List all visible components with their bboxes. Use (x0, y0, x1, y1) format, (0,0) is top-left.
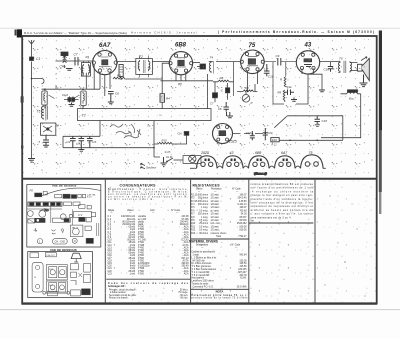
capacitor C15 (87, 136, 97, 147)
wire R1 coil down (83, 73, 86, 90)
long rect 25Z5 (53, 218, 71, 222)
scan bottom edge line (0, 309, 400, 311)
tube socket row (190, 151, 326, 176)
right rects (79, 217, 92, 222)
heater bus caps (63, 136, 154, 147)
tube circle 4 (69, 214, 72, 217)
electrolytic cap (210, 82, 218, 106)
ground 25Z5 top (227, 112, 234, 118)
ground pentode (319, 90, 325, 92)
wire left col to bus (63, 121, 100, 148)
bottom row parts (43, 289, 91, 296)
cv rects (64, 202, 92, 209)
capacitor C20 (263, 128, 273, 140)
wire main grid bus left (56, 56, 94, 61)
pencil scribble (110, 124, 141, 138)
socket 6A7 (275, 151, 296, 169)
table resistances (189, 183, 249, 299)
ground Ca (43, 145, 49, 147)
ground antenna line (28, 159, 35, 163)
band switch box (41, 123, 60, 135)
scan top edge line (0, 27, 400, 29)
wire 75 to C9 (265, 62, 277, 104)
antenna (29, 40, 35, 49)
wire arrows trimmer (49, 85, 80, 99)
IF transformer T2 (136, 55, 153, 77)
capacitor C15 out (324, 67, 334, 72)
top rects (30, 253, 56, 258)
resistor 100 box (271, 138, 279, 147)
IF can bar (28, 202, 62, 206)
socket 43 (223, 151, 244, 169)
chassis bottom view (28, 248, 93, 297)
long block T2b (78, 109, 212, 121)
wire 6B8 plate down (181, 75, 208, 109)
padder capacitor CH2 (62, 93, 79, 103)
resistor R9 (278, 90, 285, 102)
table column divider 1 (104, 179, 106, 303)
capacitor C11 (284, 85, 294, 95)
wire hook to coil (32, 79, 45, 84)
right small parts (71, 263, 91, 285)
ground mains (161, 157, 167, 167)
resistor R10 (154, 135, 187, 144)
capacitor C8b (221, 83, 230, 100)
wire 43 bottom bus (273, 69, 322, 105)
field coil Exc (341, 90, 361, 101)
capacitor C10 (264, 64, 274, 79)
ground CH1 (66, 69, 73, 71)
right edge rects2 (85, 223, 99, 236)
speaker box HP (70, 225, 83, 237)
knob rect b (43, 192, 47, 195)
scattered specks (42, 50, 373, 297)
socket 25Z5 (197, 151, 218, 169)
coil box R1 (81, 55, 90, 76)
capacitor C1 (30, 49, 41, 61)
ground 43 (291, 98, 297, 102)
heater link 3 (269, 166, 274, 168)
paper grain (14, 26, 386, 312)
wire 43 to T3 (320, 62, 339, 66)
resistor R7 (280, 77, 286, 87)
resistor R4 (160, 63, 170, 108)
choke CH1 (60, 52, 69, 69)
table column divider 2 (190, 179, 192, 303)
chassis top view (27, 184, 101, 247)
main outer border (22, 36, 377, 304)
heater link 1 (217, 166, 222, 168)
capacitor Ca (39, 135, 50, 145)
tube circle 1 (27, 211, 33, 217)
right edge dark bar (379, 31, 382, 131)
resistor R8 (237, 71, 258, 95)
border blemishes (15, 30, 24, 150)
dark rect with circle (35, 218, 46, 222)
potentiometer P (242, 95, 252, 106)
wire heater string (153, 121, 160, 157)
right text block (249, 183, 314, 223)
capacitor C7 (74, 53, 79, 66)
wire 6A7 to T2 (117, 61, 136, 63)
bottom circle 2 (72, 238, 77, 243)
tube 6B8 (169, 43, 193, 75)
socket 6B8 (249, 151, 270, 169)
tube circle 2 (39, 209, 49, 218)
chassis outline bottom view (28, 252, 93, 298)
squiggle labels (34, 228, 64, 234)
tube 75 (240, 43, 264, 74)
dial arc (41, 188, 101, 196)
transfo block 2 (46, 281, 67, 293)
bottom circle 1 (37, 239, 42, 244)
knob rect a (35, 193, 42, 197)
wire HT bus (233, 128, 343, 141)
transfo block 1 (46, 265, 67, 280)
coil T4 (209, 55, 214, 73)
table column divider 4 (314, 179, 316, 303)
wire T2 to 6B8 (152, 61, 169, 63)
socket 75 (301, 151, 324, 169)
tube 6A7 (92, 42, 117, 75)
bottom dark rect (86, 238, 93, 243)
tuning coil T5 (37, 105, 48, 121)
partition lines (27, 202, 73, 225)
bottom rounded rect (53, 239, 68, 244)
resistor R3 (113, 74, 162, 80)
choke CH4 (178, 132, 189, 136)
tube circle 3 (60, 214, 66, 220)
ground speaker (360, 75, 368, 87)
transfo rect (28, 219, 35, 223)
heater link 4 (295, 166, 300, 168)
dial lamp shade (71, 253, 81, 262)
wire left bus (31, 78, 100, 90)
heater wire into row (190, 167, 326, 169)
wire T4 to 75 (216, 62, 241, 96)
capacitor C8 (218, 102, 229, 112)
tube 43 (296, 43, 319, 75)
wire 6B8 bottom (161, 72, 214, 86)
ground caps cluster (78, 148, 84, 153)
capacitor C5 (193, 63, 206, 70)
osc coil L1 (42, 89, 47, 108)
table column divider 3 (248, 179, 250, 303)
header logo block left (17, 29, 22, 37)
wire 6A7 cathode down (94, 65, 110, 96)
switch Int (166, 155, 183, 162)
resistor R6 (213, 76, 234, 82)
resistor R2 (119, 65, 123, 81)
heater link 2 (243, 166, 248, 168)
wire antenna down (31, 62, 33, 159)
capacitor C9 (276, 54, 281, 66)
capacitor C19 (246, 131, 255, 140)
ground C6 (108, 102, 114, 104)
wire C18 bus (274, 116, 343, 128)
table condensateurs (106, 184, 190, 300)
capacitor C13 (66, 136, 76, 147)
loudspeaker (350, 57, 369, 81)
osc coil L2 (81, 91, 86, 109)
coil can row (55, 193, 97, 198)
capacitor C18 (315, 116, 328, 127)
chassis outline top view (27, 185, 101, 247)
output transformer T3 (338, 56, 351, 73)
capacitor C14 (76, 136, 84, 147)
wire C9 to 43 (281, 62, 297, 76)
rectifier tube 25Z5 (213, 124, 237, 144)
mains arrows Secteur (141, 163, 158, 169)
capacitor C6 (108, 92, 119, 103)
wire field coil down (321, 94, 361, 138)
CV block (74, 211, 96, 217)
ground padder (69, 103, 75, 107)
pilot lamp (165, 150, 202, 164)
electrolytic can (32, 262, 43, 292)
divider schematic/tables (22, 178, 377, 180)
